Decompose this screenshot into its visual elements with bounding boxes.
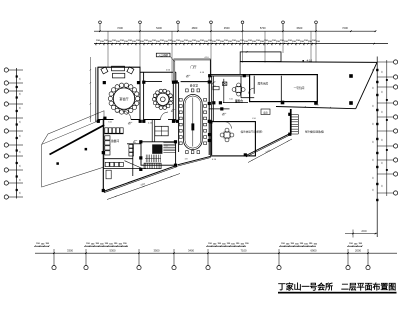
right bottom dimension [345, 230, 377, 238]
foyer walls [209, 79, 249, 109]
conference chairs [179, 89, 206, 154]
svg-text:7200: 7200 [342, 26, 348, 30]
left outer dimension line [90, 57, 91, 122]
top dimension line 1 [94, 26, 376, 32]
diagonal dimension SE [248, 139, 292, 163]
bottom secondary dimension segments [34, 243, 362, 247]
title underline [278, 292, 397, 294]
svg-text:会议室: 会议室 [190, 84, 199, 88]
lounge table B [220, 128, 234, 142]
svg-text:2000: 2000 [355, 249, 361, 253]
wedge bottom edge ticks [304, 105, 330, 109]
lounge room walls [211, 122, 256, 156]
svg-text:2600: 2600 [361, 230, 367, 233]
banquet hall walls [96, 67, 176, 122]
round banquet table T1 [108, 83, 140, 114]
svg-text:5400: 5400 [156, 26, 162, 30]
right grid bubbles column [394, 60, 398, 195]
svg-text:服务用房: 服务用房 [258, 82, 269, 86]
ramp thick edge line [50, 125, 105, 155]
right wing north wall (double) [210, 74, 319, 76]
svg-text:7200: 7200 [117, 26, 123, 30]
left grid bubbles column [4, 68, 23, 199]
bottom dimension line with grid bubbles [35, 249, 397, 270]
top dimension line 2 [94, 40, 388, 46]
svg-text:门厅: 门厅 [190, 64, 196, 69]
svg-text:7100: 7100 [241, 249, 247, 253]
svg-text:3400: 3400 [188, 249, 194, 253]
terrace roof bump [240, 51, 281, 74]
structural columns [97, 74, 292, 192]
foyer door arc [212, 82, 217, 88]
svg-text:一号包间: 一号包间 [294, 86, 305, 90]
elevation marks [128, 75, 226, 142]
stage furniture [101, 66, 134, 78]
ramp marker dots [56, 148, 87, 165]
top grid bubbles row [99, 21, 318, 31]
right outer dim text column [373, 68, 375, 191]
right dimension line [376, 57, 393, 238]
column grid bubble near entry [213, 87, 219, 90]
svg-text:室外楼梯(疏散梯): 室外楼梯(疏散梯) [305, 130, 324, 134]
svg-text:4800: 4800 [192, 26, 198, 30]
left dimension line [16, 68, 22, 199]
service fixtures row [105, 162, 123, 166]
svg-text:6600: 6600 [297, 26, 303, 30]
round dining table T2 [152, 89, 173, 109]
svg-text:5300: 5300 [110, 249, 116, 253]
elevator shaft [152, 144, 162, 153]
svg-text:6900: 6900 [311, 249, 317, 253]
stair core walls [141, 142, 176, 165]
diagonal dimension SW [107, 174, 180, 200]
svg-text:入口雨棚: 入口雨棚 [158, 53, 168, 57]
svg-text:丁家山一号会所 二层平面布置图: 丁家山一号会所 二层平面布置图 [278, 282, 396, 292]
svg-text:3500: 3500 [154, 249, 160, 253]
conference room walls [179, 76, 214, 155]
stair treads lower flight [145, 155, 161, 163]
storage box [261, 109, 270, 115]
conference table racetrack [184, 95, 203, 150]
svg-text:娱乐休息厅(兼棋牌): 娱乐休息厅(兼棋牌) [241, 129, 263, 133]
kitchen fixtures column [105, 136, 110, 155]
terrace elevation label [303, 58, 313, 62]
svg-text:5700: 5700 [260, 26, 266, 30]
svg-text:宴会厅: 宴会厅 [119, 96, 128, 101]
svg-text:3300: 3300 [67, 249, 73, 253]
svg-text:-4.10: -4.10 [306, 58, 313, 62]
bar counter fixtures [104, 128, 124, 134]
right wing room block [241, 75, 317, 102]
south-west diagonal wall [103, 161, 177, 193]
misc annotation marks [108, 70, 256, 162]
entrance porch steps [144, 163, 161, 168]
small dining room walls [144, 72, 176, 122]
room labels right wing [258, 82, 305, 91]
service area walls [103, 120, 146, 192]
pantry fixture block [155, 126, 168, 136]
corridor walls [152, 120, 155, 143]
sink fixture [222, 82, 227, 85]
toilet fixtures [129, 145, 134, 156]
grid lines into plan [108, 24, 316, 82]
outdoor stair [290, 109, 298, 134]
right inner dimension line [382, 60, 388, 196]
ramp band outline [42, 111, 104, 187]
entrance canopy label [156, 53, 174, 61]
svg-text:4500: 4500 [224, 26, 230, 30]
entrance vestibule walls [174, 59, 212, 81]
south diagonal wall [178, 156, 211, 166]
svg-text:备餐间: 备餐间 [111, 139, 119, 143]
terrace columns [281, 74, 353, 105]
terrace wedge outline [240, 62, 377, 109]
reception table A [232, 83, 245, 103]
south-east diagonal wall [245, 134, 290, 157]
stair treads upper flight [163, 143, 175, 153]
